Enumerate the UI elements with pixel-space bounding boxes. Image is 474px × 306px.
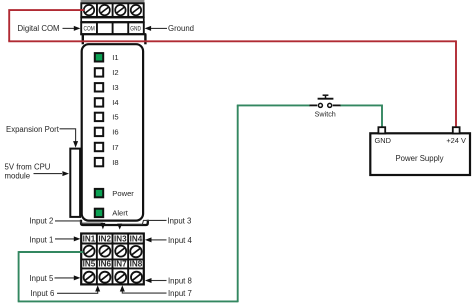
- svg-text:IN4: IN4: [130, 235, 143, 244]
- power supply PS1 box: [370, 133, 470, 175]
- top terminal block label row dividers: [97, 22, 128, 34]
- switch S1 actuator cap: [323, 94, 329, 96]
- wire: green drop to GND terminal: [381, 105, 383, 128]
- callout arrowhead Input 6: [95, 285, 100, 291]
- bottom block base tray: [81, 220, 148, 225]
- callout line Input 7: [122, 292, 166, 294]
- screw terminal pin 2: [99, 5, 109, 15]
- bottom terminal block column dividers: [97, 234, 128, 285]
- switch S1 actuator stem: [325, 96, 327, 99]
- callout arrowhead 5V from CPU module: [62, 171, 69, 176]
- wire: red +24V feed from COM terminal, top-left run: [9, 10, 84, 41]
- top terminal block gray top edge: [81, 0, 145, 3]
- wire: green return from IN1 screw to left: [19, 251, 84, 253]
- svg-text:I3: I3: [112, 83, 118, 92]
- svg-text:Ground: Ground: [168, 24, 194, 33]
- callout arrowhead Input 3: [117, 224, 122, 230]
- svg-text:I5: I5: [112, 113, 118, 122]
- screw terminal pin 1 (COM): [84, 5, 94, 15]
- switch S1 right lead: [333, 104, 341, 106]
- screw terminal IN4: [130, 246, 141, 257]
- screw terminal IN3: [115, 246, 126, 257]
- screw terminal pin 4 (GND): [131, 5, 141, 15]
- svg-text:I4: I4: [112, 98, 118, 107]
- svg-text:COM: COM: [84, 26, 95, 33]
- screw terminal pin 3: [115, 5, 125, 15]
- callout arrowhead Input 4: [145, 237, 152, 242]
- LED I5: [95, 113, 103, 121]
- svg-text:IN7: IN7: [114, 259, 127, 268]
- callout line Digital COM: [63, 27, 75, 29]
- svg-text:Input 8: Input 8: [168, 277, 192, 286]
- LED I6: [95, 128, 103, 136]
- callout line 5V from CPU module: [34, 173, 63, 175]
- callout arrowhead Input 5: [74, 275, 81, 280]
- svg-text:Input 1: Input 1: [30, 235, 54, 244]
- svg-text:5V from CPU: 5V from CPU: [5, 162, 51, 171]
- bottom terminal block row dividers: [81, 244, 144, 269]
- svg-text:module: module: [5, 172, 31, 181]
- svg-text:I1: I1: [112, 53, 118, 62]
- LED I8: [95, 158, 103, 166]
- switch S1 left lead: [310, 104, 318, 106]
- callout arrowhead Input 1: [74, 236, 81, 241]
- svg-text:Input 4: Input 4: [168, 236, 193, 245]
- LED I2: [95, 68, 103, 76]
- screw terminal IN6: [99, 272, 110, 283]
- svg-text:I6: I6: [112, 128, 118, 137]
- power supply +24V terminal: [453, 127, 460, 133]
- callout line Input 3: [120, 220, 167, 224]
- svg-text:Switch: Switch: [315, 109, 336, 118]
- callout line Input 6: [57, 292, 98, 294]
- svg-text:Power Supply: Power Supply: [395, 154, 443, 163]
- top block right leg: [144, 34, 146, 44]
- svg-text:IN2: IN2: [98, 235, 111, 244]
- wire: green run to switch: [237, 104, 310, 106]
- svg-text:Alert: Alert: [112, 209, 129, 218]
- svg-text:IN6: IN6: [98, 259, 111, 268]
- svg-text:IN5: IN5: [83, 259, 96, 268]
- callout line Input 8: [151, 280, 167, 282]
- svg-text:Input 2: Input 2: [30, 216, 54, 225]
- svg-text:I7: I7: [112, 143, 118, 152]
- callout line Ground: [151, 27, 167, 29]
- callout line Input 4: [151, 239, 167, 241]
- top terminal block flange: [81, 18, 144, 22]
- callout arrowhead Digital COM: [74, 26, 81, 31]
- screw terminal IN1: [84, 246, 95, 257]
- LED I7: [95, 143, 103, 151]
- power supply GND terminal: [378, 127, 385, 133]
- LED Power: [95, 189, 103, 197]
- wire: red drop to +24 V terminal: [455, 40, 457, 127]
- switch S1 actuator bar: [318, 98, 334, 100]
- bottom terminal block frame: [81, 234, 144, 285]
- LED Alert: [95, 209, 103, 217]
- callout arrowhead Input 2: [100, 223, 105, 230]
- callout arrowhead Ground: [145, 26, 152, 31]
- top terminal block label row frame: [81, 22, 144, 34]
- svg-text:+24 V: +24 V: [446, 136, 466, 145]
- screw terminal IN7: [115, 272, 126, 283]
- svg-text:Power: Power: [112, 189, 134, 198]
- screw terminal IN5: [84, 272, 95, 283]
- LED I3: [95, 83, 103, 91]
- callout line Expansion Port: [60, 129, 76, 142]
- screw terminal IN2: [99, 246, 110, 257]
- svg-text:IN3: IN3: [114, 235, 127, 244]
- callout line Input 5: [55, 277, 75, 279]
- svg-text:GND: GND: [375, 136, 391, 145]
- callout arrowhead Input 8: [145, 278, 152, 283]
- callout arrowhead Input 7: [120, 285, 125, 291]
- wire: green bottom horizontal run: [18, 300, 238, 302]
- LED I1: [95, 53, 103, 61]
- wire: green riser to switch level: [237, 105, 239, 302]
- svg-text:I8: I8: [112, 158, 118, 167]
- svg-text:Expansion Port: Expansion Port: [6, 125, 60, 134]
- svg-text:Input 5: Input 5: [30, 274, 55, 283]
- screw terminal IN8: [131, 272, 142, 283]
- svg-text:IN8: IN8: [130, 259, 143, 268]
- wire: green left vertical drop: [18, 251, 20, 301]
- svg-text:IN1: IN1: [83, 235, 96, 244]
- svg-text:Input 7: Input 7: [168, 289, 192, 298]
- wire: green run switch to power supply GND: [340, 104, 382, 106]
- top terminal block screw row dividers: [97, 3, 128, 17]
- callout line Input 2: [55, 221, 103, 223]
- svg-text:Input 6: Input 6: [31, 289, 55, 298]
- svg-text:GND: GND: [130, 26, 141, 33]
- callout arrowhead Expansion Port: [73, 141, 78, 148]
- wire: red horizontal run across to power supply side: [8, 40, 456, 42]
- top block left leg: [82, 34, 84, 44]
- svg-text:Digital COM: Digital COM: [18, 24, 60, 33]
- expansion port connector: [70, 149, 80, 217]
- svg-text:Input 3: Input 3: [168, 216, 192, 225]
- LED I4: [95, 98, 103, 106]
- svg-text:I2: I2: [112, 68, 118, 77]
- top terminal block screw row frame: [81, 3, 143, 17]
- switch S1 right contact: [328, 103, 332, 107]
- callout line Input 1: [55, 238, 74, 240]
- top block base bar: [80, 33, 146, 35]
- switch S1 left contact: [318, 103, 322, 107]
- digital input module U1 body: [82, 44, 143, 220]
